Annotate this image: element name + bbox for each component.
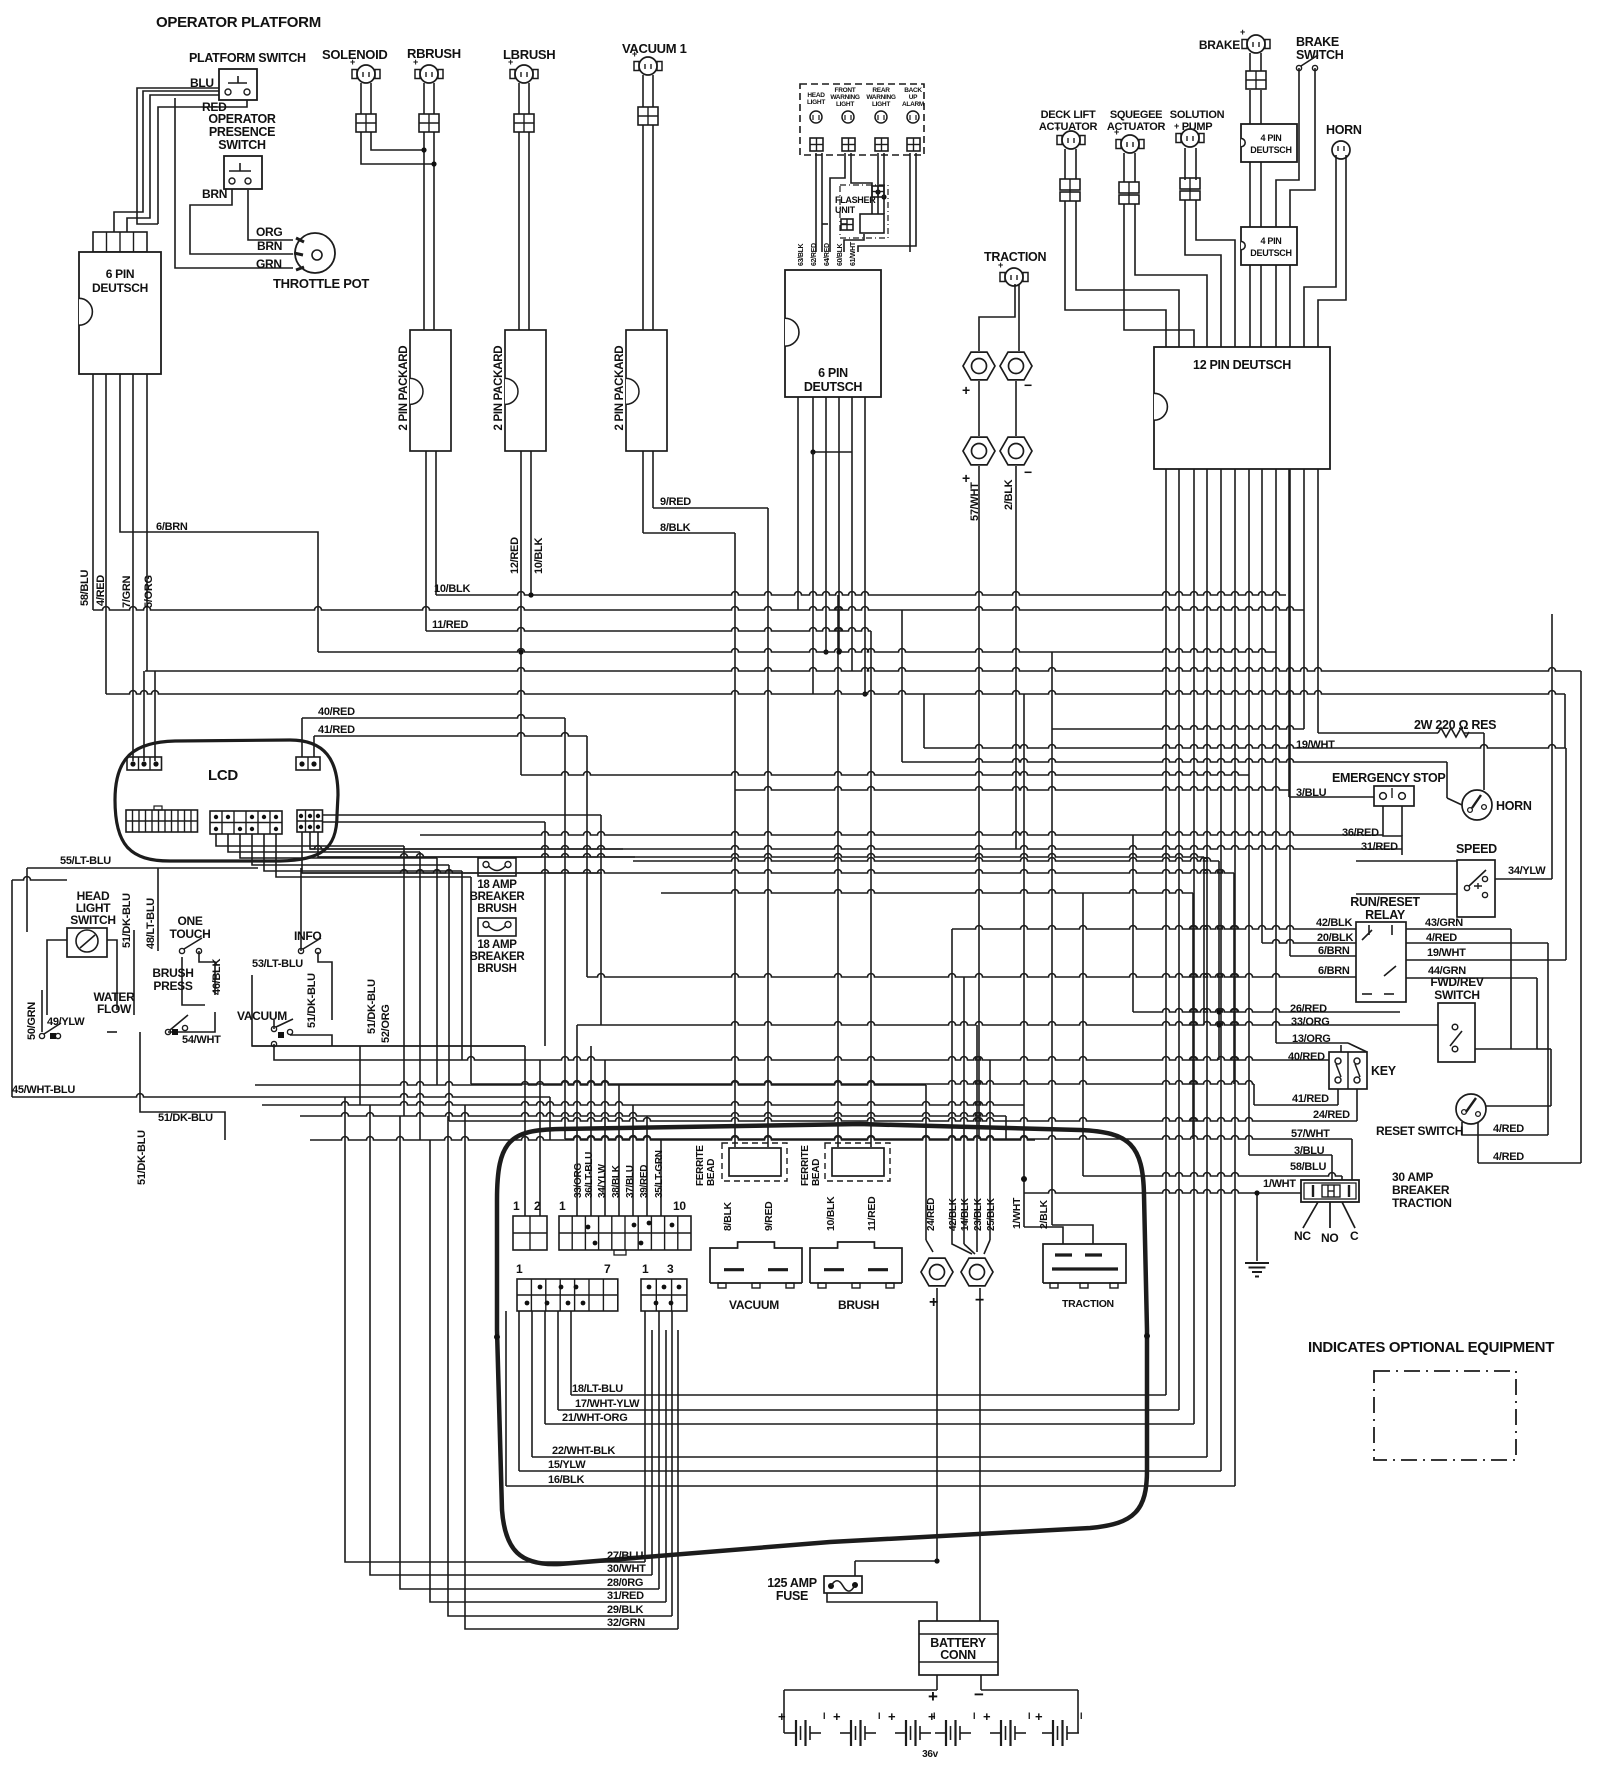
svg-text:ALARM: ALARM — [902, 101, 924, 108]
svg-text:1: 1 — [642, 1262, 649, 1276]
svg-text:51/DK-BLU: 51/DK-BLU — [306, 973, 318, 1028]
svg-text:SQUEGEE: SQUEGEE — [1110, 109, 1162, 121]
svg-text:4 PIN: 4 PIN — [1260, 236, 1281, 246]
wire: packard2 outputs 12/RED 10/BLK — [520, 451, 522, 775]
svg-text:39/RED: 39/RED — [639, 1165, 650, 1198]
svg-text:RESET SWITCH: RESET SWITCH — [1376, 1124, 1463, 1138]
svg-text:1: 1 — [559, 1199, 566, 1213]
wire: 3/BLU lower line — [1249, 1154, 1332, 1156]
svg-text:31/RED: 31/RED — [1361, 841, 1398, 853]
svg-text:61/WHT: 61/WHT — [850, 241, 857, 266]
svg-text:4/RED: 4/RED — [1426, 932, 1457, 944]
svg-text:2: 2 — [534, 1199, 541, 1213]
wire: 3/BLU e-stop line — [1289, 796, 1374, 798]
wire: rbrush down to 2 pin packard — [423, 83, 425, 114]
svg-text:62/RED: 62/RED — [811, 243, 818, 266]
svg-text:I: I — [878, 1711, 880, 1721]
svg-text:DEUTSCH: DEUTSCH — [1250, 248, 1291, 258]
wire: solenoid down to merge — [360, 83, 362, 114]
svg-text:−: − — [975, 1292, 984, 1309]
svg-text:+: + — [929, 1294, 938, 1311]
svg-text:+: + — [632, 49, 637, 59]
svg-text:BREAKER: BREAKER — [1392, 1183, 1450, 1197]
svg-text:GRN: GRN — [256, 257, 282, 271]
wire: 42-25/BLK minus-hex verticals — [951, 929, 953, 1240]
wire: bottom-right label rows — [571, 1394, 1166, 1396]
svg-text:BRN: BRN — [202, 187, 227, 201]
wire: minus hex down to battery conn — [979, 1288, 981, 1621]
wire: plus hex 24/RED — [925, 1085, 927, 1240]
svg-text:2 PIN PACKARD: 2 PIN PACKARD — [493, 346, 505, 431]
svg-text:51/DK-BLU: 51/DK-BLU — [158, 1112, 213, 1124]
svg-text:51/DK-BLU: 51/DK-BLU — [121, 893, 133, 948]
horn switch — [1462, 790, 1492, 820]
svg-text:FWD/REV: FWD/REV — [1430, 975, 1484, 989]
svg-text:BRUSH: BRUSH — [152, 966, 193, 980]
svg-text:42/BLK: 42/BLK — [948, 1197, 959, 1231]
svg-text:2 PIN PACKARD: 2 PIN PACKARD — [614, 346, 626, 431]
LCD module — [115, 740, 338, 861]
svg-text:29/BLK: 29/BLK — [607, 1604, 643, 1616]
svg-text:CONN: CONN — [940, 1648, 976, 1662]
wire: 26/RED line — [1133, 1009, 1400, 1012]
svg-text:C: C — [1350, 1229, 1359, 1243]
svg-text:30 AMP: 30 AMP — [1392, 1170, 1433, 1184]
svg-text:+: + — [928, 1687, 938, 1706]
wire: LCD right connector drops — [302, 832, 602, 873]
2 pin packard 3 — [626, 330, 667, 451]
back up alarm lamp — [907, 111, 919, 123]
svg-text:BRN: BRN — [257, 239, 282, 253]
svg-text:4/RED: 4/RED — [1493, 1123, 1524, 1135]
svg-text:53/LT-BLU: 53/LT-BLU — [252, 958, 303, 970]
wire: center band 835 — [420, 832, 1383, 835]
svg-text:BRAKE: BRAKE — [1296, 35, 1339, 49]
wire: 8/BLK run into controller — [734, 533, 736, 1147]
svg-text:NC: NC — [1294, 1229, 1311, 1243]
svg-text:+: + — [1055, 123, 1060, 133]
svg-text:6 PIN: 6 PIN — [818, 366, 848, 380]
svg-text:REAR: REAR — [872, 87, 890, 94]
wire: brake switch wires — [1276, 68, 1299, 347]
svg-text:4/RED: 4/RED — [1493, 1151, 1524, 1163]
wire: controller grid drops — [570, 1311, 572, 1395]
svg-text:FUSE: FUSE — [776, 1589, 808, 1603]
wire: resistor feed — [1318, 732, 1438, 734]
svg-text:SWITCH: SWITCH — [70, 913, 116, 927]
wire: 33/ORG line — [577, 1022, 1455, 1026]
svg-text:+: + — [1174, 121, 1179, 131]
svg-text:+: + — [413, 57, 418, 67]
svg-text:+: + — [1114, 127, 1119, 137]
svg-text:1/WHT: 1/WHT — [1263, 1178, 1296, 1190]
wire: vacuum 1 down to 2 pin packard — [642, 75, 644, 107]
svg-text:36v: 36v — [922, 1749, 939, 1760]
svg-text:28/0RG: 28/0RG — [607, 1577, 643, 1589]
18 amp breaker brush 1 — [478, 858, 516, 876]
svg-text:3: 3 — [667, 1262, 674, 1276]
svg-text:2W 220 Ω RES: 2W 220 Ω RES — [1414, 718, 1496, 732]
svg-text:57/WHT: 57/WHT — [969, 482, 981, 521]
svg-text:THROTTLE POT: THROTTLE POT — [273, 276, 369, 291]
svg-text:I: I — [973, 1711, 975, 1721]
brush motor connector — [810, 1242, 902, 1283]
svg-text:1: 1 — [516, 1262, 523, 1276]
wire: 41/RED from LCD — [313, 736, 315, 757]
6 pin deutsch (left) — [79, 252, 161, 374]
svg-text:42/BLK: 42/BLK — [1316, 917, 1352, 929]
svg-text:6 PIN: 6 PIN — [106, 267, 135, 281]
svg-text:BRUSH: BRUSH — [477, 963, 516, 975]
svg-text:+: + — [350, 57, 355, 67]
wire: center band 857 — [318, 854, 1204, 858]
svg-text:SPEED: SPEED — [1456, 842, 1497, 856]
svg-text:2 PIN PACKARD: 2 PIN PACKARD — [398, 346, 410, 431]
svg-text:52/ORG: 52/ORG — [380, 1004, 392, 1043]
svg-text:5/ORG: 5/ORG — [143, 575, 155, 608]
svg-text:7/GRN: 7/GRN — [121, 576, 133, 608]
svg-text:+: + — [1240, 27, 1245, 37]
svg-text:10/BLK: 10/BLK — [825, 1196, 837, 1231]
svg-text:16/BLK: 16/BLK — [548, 1474, 584, 1486]
wire: plus hex to fuse to battery conn — [936, 1288, 938, 1561]
svg-text:54/WHT: 54/WHT — [182, 1034, 221, 1046]
svg-text:63/BLK: 63/BLK — [798, 243, 805, 266]
svg-text:WARNING: WARNING — [866, 94, 896, 101]
controller box outline — [497, 1124, 1147, 1564]
wire: 40/RED line to key — [462, 1057, 1341, 1061]
2 pin packard 2 — [505, 330, 546, 451]
wire: 10/BLK run — [436, 592, 1286, 596]
wire: bus 671 — [145, 668, 1581, 672]
svg-text:1/WHT: 1/WHT — [1011, 1197, 1023, 1229]
svg-text:49/YLW: 49/YLW — [47, 1016, 85, 1028]
svg-text:I: I — [1080, 1711, 1082, 1721]
wire: bus 694 — [106, 691, 1565, 695]
svg-text:LIGHT: LIGHT — [807, 99, 825, 106]
wire: ground drop — [1256, 1193, 1258, 1261]
ground symbol — [1245, 1262, 1269, 1264]
svg-text:SOLUTION: SOLUTION — [1170, 109, 1225, 121]
svg-text:58/BLU: 58/BLU — [79, 570, 91, 606]
wire: squegee actuator — [1123, 153, 1125, 182]
svg-text:TRACTION: TRACTION — [1392, 1196, 1452, 1210]
svg-text:24/RED: 24/RED — [926, 1198, 937, 1231]
4 pin deutsch upper — [1241, 124, 1297, 162]
svg-text:37/BLU: 37/BLU — [625, 1165, 636, 1198]
svg-text:22/WHT-BLK: 22/WHT-BLK — [552, 1445, 615, 1457]
svg-text:9/RED: 9/RED — [660, 496, 691, 508]
svg-text:PRESS: PRESS — [153, 979, 192, 993]
wire: brake connector down — [1249, 53, 1251, 71]
svg-text:18 AMP: 18 AMP — [477, 879, 517, 891]
svg-text:43/GRN: 43/GRN — [1425, 917, 1463, 929]
platform switch — [219, 69, 257, 100]
wire: lbrush down to 2 pin packard — [518, 83, 520, 114]
svg-text:I: I — [823, 1711, 825, 1721]
svg-text:2/BLK: 2/BLK — [1003, 479, 1015, 510]
svg-text:FLASHER: FLASHER — [835, 195, 876, 205]
svg-text:−: − — [1024, 464, 1032, 480]
wire: platform switch harness — [137, 88, 222, 224]
svg-text:BEAD: BEAD — [706, 1159, 717, 1186]
svg-text:4 PIN: 4 PIN — [1260, 133, 1281, 143]
svg-text:8/BLK: 8/BLK — [722, 1201, 734, 1231]
svg-text:−: − — [1024, 377, 1032, 393]
wire: packard3 outputs 9/RED 8/BLK — [652, 451, 654, 508]
svg-text:+: + — [928, 1709, 936, 1724]
operator presence switch — [224, 156, 262, 189]
svg-text:ONE: ONE — [177, 914, 202, 928]
svg-text:11/RED: 11/RED — [866, 1196, 878, 1231]
svg-text:TOUCH: TOUCH — [170, 927, 211, 941]
svg-text:8/BLK: 8/BLK — [660, 522, 691, 534]
2 pin packard 1 — [410, 330, 451, 451]
svg-text:HEAD: HEAD — [807, 92, 825, 99]
wire: 41/RED upper run — [471, 1081, 1254, 1085]
wire: center band 873 — [302, 870, 1234, 873]
svg-text:LCD: LCD — [208, 767, 238, 784]
wire: 6 pin deutsch (left) pins down — [92, 374, 94, 610]
svg-text:FERRITE: FERRITE — [800, 1145, 811, 1186]
svg-text:PLATFORM SWITCH: PLATFORM SWITCH — [189, 51, 306, 65]
svg-text:FRONT: FRONT — [835, 87, 856, 94]
svg-text:−: − — [974, 1685, 984, 1704]
svg-text:57/WHT: 57/WHT — [1291, 1128, 1330, 1140]
svg-text:12 PIN DEUTSCH: 12 PIN DEUTSCH — [1193, 358, 1291, 372]
svg-text:BREAKER: BREAKER — [470, 891, 526, 903]
svg-text:DEUTSCH: DEUTSCH — [804, 380, 863, 394]
svg-text:SWITCH: SWITCH — [1296, 48, 1344, 62]
svg-text:125 AMP: 125 AMP — [767, 1576, 817, 1590]
wire: center band 861 — [633, 858, 1219, 861]
svg-text:+: + — [508, 57, 513, 67]
svg-text:WARNING: WARNING — [830, 94, 860, 101]
svg-text:HORN: HORN — [1496, 799, 1532, 813]
wire: bus 652 6/BRN — [318, 649, 1276, 653]
svg-text:36/RED: 36/RED — [1342, 827, 1379, 839]
svg-text:38/BLK: 38/BLK — [611, 1164, 622, 1198]
vacuum motor connector — [710, 1242, 802, 1283]
svg-text:48/LT-BLU: 48/LT-BLU — [145, 898, 157, 949]
plus hex terminal — [921, 1258, 953, 1286]
svg-text:12/RED: 12/RED — [509, 537, 521, 574]
svg-text:26/RED: 26/RED — [1290, 1003, 1327, 1015]
svg-text:OPERATOR: OPERATOR — [208, 112, 276, 126]
wire: 41/RED to key — [1254, 1104, 1338, 1106]
wire: 11/RED run into controller — [870, 631, 872, 1147]
rear warning lamp — [875, 111, 887, 123]
svg-text:RUN/RESET: RUN/RESET — [1350, 895, 1420, 909]
svg-text:32/GRN: 32/GRN — [607, 1617, 645, 1629]
svg-text:+: + — [888, 1709, 896, 1724]
svg-text:31/RED: 31/RED — [607, 1590, 644, 1602]
svg-text:3/BLU: 3/BLU — [1296, 787, 1327, 799]
svg-text:ORG: ORG — [256, 225, 282, 239]
battery string 36v — [785, 1732, 796, 1734]
wire: traction connector down — [979, 284, 1015, 351]
svg-text:+: + — [833, 1709, 841, 1724]
warning lights dashed box — [800, 84, 924, 155]
svg-text:36/LT-BLU: 36/LT-BLU — [584, 1152, 595, 1198]
wire: 57/WHT line — [565, 1136, 1352, 1140]
wire: 12 pin deutsch outputs down — [1165, 469, 1167, 1395]
wire: 24/RED line — [449, 1118, 1357, 1121]
wire: 57/WHT vertical — [978, 466, 980, 1139]
svg-text:7: 7 — [604, 1262, 611, 1276]
svg-text:BRUSH: BRUSH — [838, 1298, 879, 1312]
svg-text:1: 1 — [513, 1199, 520, 1213]
svg-text:23/BLK: 23/BLK — [973, 1197, 984, 1231]
svg-text:17/WHT-YLW: 17/WHT-YLW — [575, 1398, 640, 1410]
wire: 1/WHT inside controller — [1023, 694, 1025, 1227]
svg-text:BACK: BACK — [904, 87, 922, 94]
svg-text:KEY: KEY — [1371, 1064, 1397, 1078]
wire: relay output lines — [1406, 928, 1511, 930]
key switch — [1329, 1052, 1367, 1089]
svg-text:40/RED: 40/RED — [318, 706, 355, 718]
svg-text:24/RED: 24/RED — [1313, 1109, 1350, 1121]
wire: 58/BLU line — [1083, 1173, 1342, 1177]
svg-text:OPERATOR PLATFORM: OPERATOR PLATFORM — [156, 14, 321, 31]
minus hex terminal — [961, 1258, 993, 1286]
svg-text:55/LT-BLU: 55/LT-BLU — [60, 855, 111, 867]
18 amp breaker brush 2 — [478, 918, 516, 936]
reset switch — [1456, 1094, 1486, 1124]
svg-text:FLOW: FLOW — [97, 1002, 132, 1016]
wire: 10/BLK run into controller — [837, 595, 839, 1147]
svg-text:41/RED: 41/RED — [318, 724, 355, 736]
svg-text:VACUUM: VACUUM — [729, 1298, 779, 1312]
wire: LCD bottom fan-out — [216, 834, 404, 846]
svg-text:BLU: BLU — [190, 76, 214, 90]
wire: 51/DK-BLU 52/ORG drops — [524, 1046, 526, 1216]
svg-text:14/BLK: 14/BLK — [960, 1197, 971, 1231]
svg-text:64/RED: 64/RED — [824, 243, 831, 266]
wire: reset switch tails — [1462, 1122, 1485, 1135]
wire: fwd/rev switch leads — [1454, 1049, 1456, 1052]
svg-text:33/ORG: 33/ORG — [1291, 1016, 1330, 1028]
svg-text:UNIT: UNIT — [835, 205, 856, 215]
front warning lamp — [842, 111, 854, 123]
svg-text:DEUTSCH: DEUTSCH — [1250, 145, 1291, 155]
30 amp breaker traction — [1301, 1180, 1359, 1202]
svg-text:RELAY: RELAY — [1365, 908, 1406, 922]
traction hex posts — [963, 352, 995, 380]
svg-text:9/RED: 9/RED — [763, 1201, 775, 1231]
wire: 40/RED from LCD — [301, 718, 303, 757]
wire: 6 pin deutsch (middle) pins down — [797, 397, 799, 452]
6 pin deutsch (left) pin block — [93, 232, 147, 252]
svg-text:51/DK-BLU: 51/DK-BLU — [366, 979, 378, 1034]
svg-text:15/YLW: 15/YLW — [548, 1459, 586, 1471]
svg-text:46/BLK: 46/BLK — [211, 959, 223, 995]
svg-text:EMERGENCY STOP: EMERGENCY STOP — [1332, 771, 1445, 785]
wire: 8/BLK run — [643, 532, 735, 534]
wire: flasher unit connections — [841, 223, 847, 225]
svg-text:UP: UP — [909, 94, 918, 101]
svg-text:33/ORG: 33/ORG — [573, 1163, 584, 1198]
svg-text:41/RED: 41/RED — [1292, 1093, 1329, 1105]
svg-text:6/BRN: 6/BRN — [1318, 965, 1350, 977]
svg-text:40/RED: 40/RED — [1288, 1051, 1325, 1063]
svg-text:30/WHT: 30/WHT — [607, 1563, 646, 1575]
wire: horn down to 12 pin — [1304, 155, 1336, 347]
wire: horn feed line — [902, 759, 1447, 763]
svg-text:3/BLU: 3/BLU — [1294, 1145, 1325, 1157]
wire: packard1 outputs to 10/BLK 11/RED runs — [425, 451, 427, 631]
wire: center band 893 — [661, 890, 1193, 893]
wire: 2/BLK down to traction conn — [1051, 652, 1053, 1225]
wire: deck lift actuator — [1064, 149, 1066, 179]
head light lamp — [810, 111, 822, 123]
svg-text:SWITCH: SWITCH — [1434, 988, 1480, 1002]
svg-text:19/WHT: 19/WHT — [1296, 739, 1335, 751]
wire: right staircase feeds — [1132, 835, 1134, 1012]
wire: 27/BLU..32/GRN staircase — [345, 1097, 645, 1562]
svg-text:+: + — [983, 1709, 991, 1724]
wire: relay input lines — [952, 926, 1356, 929]
wire: solution pump — [1184, 148, 1186, 180]
svg-text:18 AMP: 18 AMP — [477, 939, 517, 951]
svg-text:BREAKER: BREAKER — [470, 951, 526, 963]
svg-text:TRACTION: TRACTION — [1062, 1298, 1114, 1310]
svg-text:21/WHT-ORG: 21/WHT-ORG — [562, 1412, 627, 1424]
svg-text:35/LT-GRN: 35/LT-GRN — [654, 1150, 665, 1198]
4 pin deutsch lower — [1241, 227, 1297, 265]
svg-text:58/BLU: 58/BLU — [1290, 1161, 1326, 1173]
svg-text:10/BLK: 10/BLK — [533, 538, 545, 574]
wire: 9/RED run into controller — [767, 508, 769, 1147]
svg-text:60/BLK: 60/BLK — [837, 243, 844, 266]
wire: LCD right block outputs — [322, 814, 601, 816]
svg-text:BRAKE: BRAKE — [1199, 38, 1240, 52]
wire: bus 729 — [1052, 726, 1304, 730]
svg-text:+: + — [1035, 1709, 1043, 1724]
svg-text:SWITCH: SWITCH — [218, 138, 266, 152]
svg-text:+: + — [962, 382, 970, 398]
svg-text:10/BLK: 10/BLK — [434, 583, 470, 595]
wire: 13/ORG line — [1276, 1042, 1348, 1044]
wire: grid 1-3 drops to bottom rows — [644, 1311, 646, 1562]
wire: key to reset links — [1348, 1043, 1367, 1052]
svg-text:LIGHT: LIGHT — [836, 101, 854, 108]
wire: 2/BLK vertical — [1015, 466, 1017, 849]
traction motor connector — [1043, 1244, 1126, 1283]
svg-text:NO: NO — [1321, 1231, 1338, 1245]
svg-text:51/DK-BLU: 51/DK-BLU — [136, 1130, 148, 1185]
svg-text:VACUUM: VACUUM — [237, 1009, 287, 1023]
svg-text:BRUSH: BRUSH — [477, 903, 516, 915]
battery connector — [919, 1621, 998, 1675]
wire: left switch cluster — [27, 867, 258, 869]
wire: bus 610 to horn feed — [93, 607, 1304, 611]
svg-text:27/BLU: 27/BLU — [607, 1550, 643, 1562]
wire: breaker traction NC NO C stubs — [1303, 1202, 1318, 1228]
wire: battery chain ends — [784, 1732, 785, 1734]
wire: speed switch leads — [1356, 860, 1457, 862]
svg-text:FERRITE: FERRITE — [695, 1145, 706, 1186]
12 pin deutsch — [1154, 347, 1330, 469]
svg-text:+: + — [778, 1709, 786, 1724]
svg-text:INDICATES OPTIONAL EQUIPMENT: INDICATES OPTIONAL EQUIPMENT — [1308, 1339, 1554, 1356]
svg-text:25/BLK: 25/BLK — [986, 1197, 997, 1231]
wire: operator presence to throttle pot ORG/BRN/GRN — [248, 190, 293, 240]
svg-text:34/YLW: 34/YLW — [597, 1163, 608, 1198]
svg-text:20/BLK: 20/BLK — [1317, 932, 1353, 944]
svg-text:BEAD: BEAD — [811, 1159, 822, 1186]
wire: head/warning lights into flasher area — [815, 153, 817, 252]
